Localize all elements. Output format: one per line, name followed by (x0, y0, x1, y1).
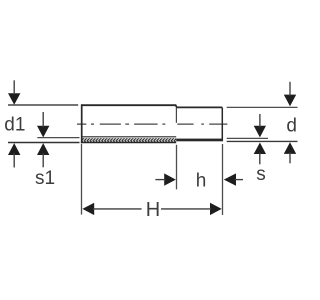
svg-text:s: s (256, 164, 266, 185)
svg-text:h: h (196, 170, 207, 191)
svg-text:s1: s1 (35, 168, 55, 189)
svg-text:H: H (146, 199, 160, 221)
svg-text:d1: d1 (4, 114, 25, 135)
svg-text:d: d (286, 115, 297, 136)
